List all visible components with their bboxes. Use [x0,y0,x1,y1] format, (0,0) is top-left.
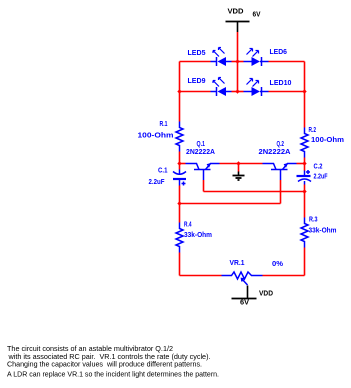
svg-text:R.4: R.4 [184,222,192,229]
svg-text:C.2: C.2 [314,164,323,171]
svg-text:6V: 6V [253,12,261,19]
svg-text:VDD: VDD [228,9,244,16]
svg-text:100-Ohm: 100-Ohm [138,132,174,139]
svg-text:LED10: LED10 [270,80,292,87]
svg-text:Changing the capacitor values: Changing the capacitor values will produ… [7,360,202,369]
svg-text:VDD: VDD [259,291,273,298]
svg-text:6V: 6V [240,300,249,307]
svg-text:33k-Ohm: 33k-Ohm [309,228,337,235]
svg-text:Q.1: Q.1 [197,141,206,148]
svg-text:LED5: LED5 [188,50,206,57]
svg-text:0%: 0% [272,261,284,268]
svg-text:2N2222A: 2N2222A [186,149,215,156]
svg-text:R.2: R.2 [309,127,317,134]
svg-text:A LDR can replace VR.1 so the: A LDR can replace VR.1 so the incident l… [7,370,219,379]
svg-text:100-Ohm: 100-Ohm [311,137,344,144]
svg-text:2N2222A: 2N2222A [259,149,291,156]
svg-text:R.3: R.3 [309,217,318,224]
svg-text:C.1: C.1 [158,168,168,175]
svg-text:LED6: LED6 [270,49,288,56]
svg-text:2.2uF: 2.2uF [314,174,329,181]
svg-text:LED9: LED9 [188,78,206,85]
svg-text:VR.1: VR.1 [230,260,245,267]
svg-text:Q.2: Q.2 [277,141,285,148]
svg-text:R.1: R.1 [160,121,168,128]
svg-text:2.2uF: 2.2uF [149,179,166,186]
svg-text:33k-Ohm: 33k-Ohm [184,232,212,239]
